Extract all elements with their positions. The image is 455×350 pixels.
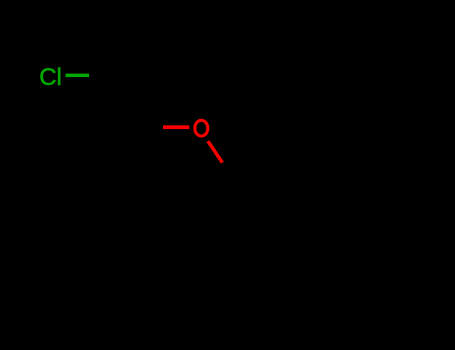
bond Cl-C1 (green half) — [66, 74, 90, 78]
bond O-C3 (red half, diagonal) — [208, 141, 223, 163]
atom label O (drawn as ring) — [195, 120, 208, 136]
svg-text:Cl: Cl — [39, 64, 62, 91]
bond C2-O (red half) — [163, 125, 189, 129]
